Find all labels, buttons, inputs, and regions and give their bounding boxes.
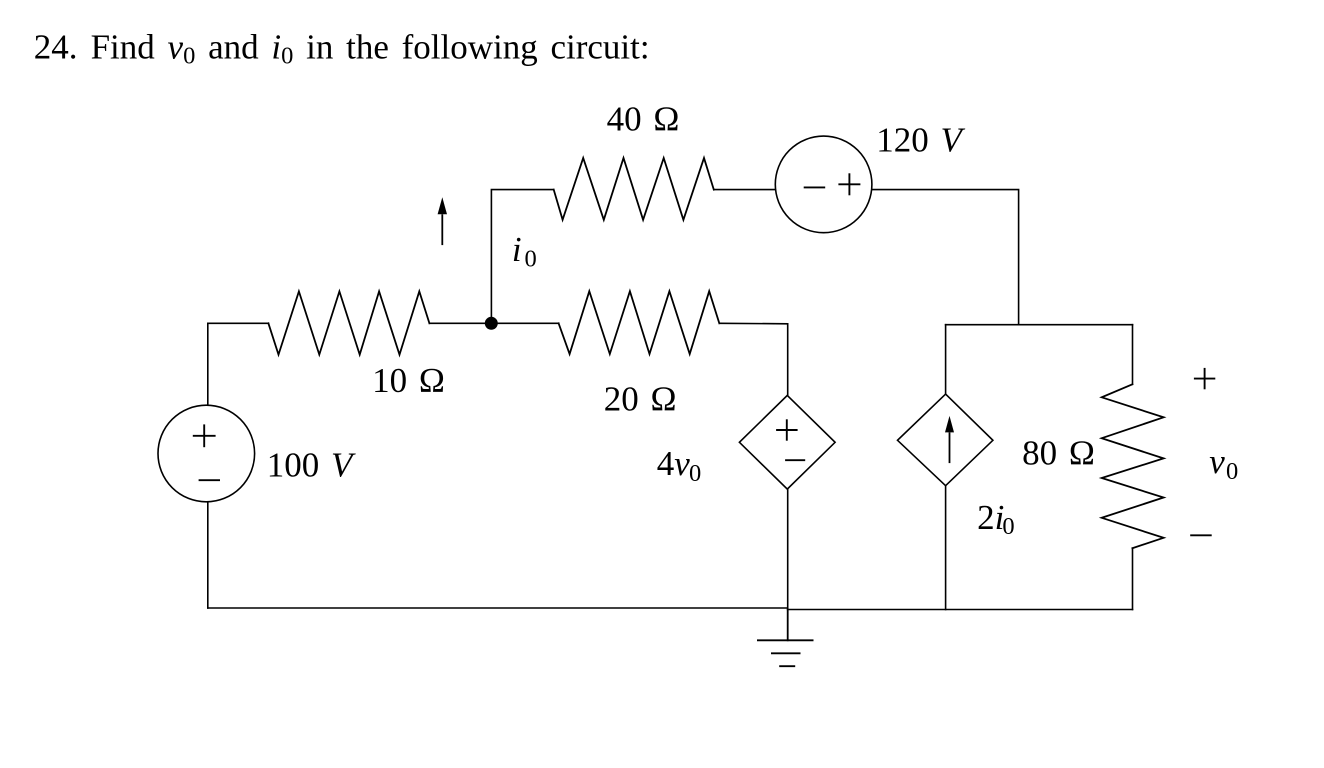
ground symbol [787,610,789,641]
resistor R 10ohm [268,291,429,354]
resistor R 40ohm [554,158,714,220]
title text [34,28,650,70]
resistor R 20ohm [559,291,720,354]
dependent source 2i0 diamond [898,394,993,486]
svg-text:0: 0 [1002,513,1014,540]
wire top-right horizontal [946,324,1133,326]
svg-text:0: 0 [1226,458,1238,485]
wire down to 80ohm [1132,325,1134,385]
wire 4v0 bottom [787,489,789,609]
plus minus of 100V source [193,424,220,480]
svg-text:4v: 4v [657,444,691,483]
plus minus of 4v0 source [776,419,805,460]
wire bottom left [208,607,788,609]
svg-text:40 Ω: 40 Ω [607,100,680,139]
wire 80ohm bottom [1132,548,1134,609]
voltage source V 120V circle [775,136,872,233]
wire 10ohm to node to 20ohm [429,322,558,324]
resistor R 80ohm vertical [1102,384,1164,548]
wire 20ohm to 4v0 source [719,323,787,395]
svg-text:0: 0 [525,245,537,272]
wire 100V bottom down [207,502,209,608]
svg-text:24.: 24. [34,28,78,67]
svg-text:10 Ω: 10 Ω [372,361,445,400]
svg-text:i: i [512,230,522,269]
svg-text:2i: 2i [977,498,1004,537]
wire bottom right [788,609,1133,611]
svg-text:0: 0 [689,460,701,487]
svg-text:v: v [1209,442,1225,481]
wire top-left corner to 10 ohm [208,323,269,405]
dependent source 4v0 diamond [739,395,835,489]
wire 40ohm to 120V source [714,189,776,191]
arrow for i0 current [438,197,447,245]
svg-text:120 V: 120 V [876,121,965,160]
svg-text:80 Ω: 80 Ω [1022,434,1095,473]
voltage source V 100V circle [158,405,255,502]
arrow inside 2i0 source [945,416,954,463]
minus sign v0 polarity [1190,534,1212,536]
node junction dot [485,317,498,330]
wire down to 2i0 source [945,325,947,394]
minus plus of 120V source [804,173,861,195]
wire 2i0 bottom [945,486,947,610]
wire node up [491,190,553,324]
svg-text:Find v0 and i0 in the followin: Find v0 and i0 in the following circuit: [91,28,650,70]
wire 120V to right corner down [872,190,1019,325]
svg-text:100 V: 100 V [267,445,356,484]
svg-text:20 Ω: 20 Ω [604,380,677,419]
plus sign v0 polarity [1194,368,1215,389]
